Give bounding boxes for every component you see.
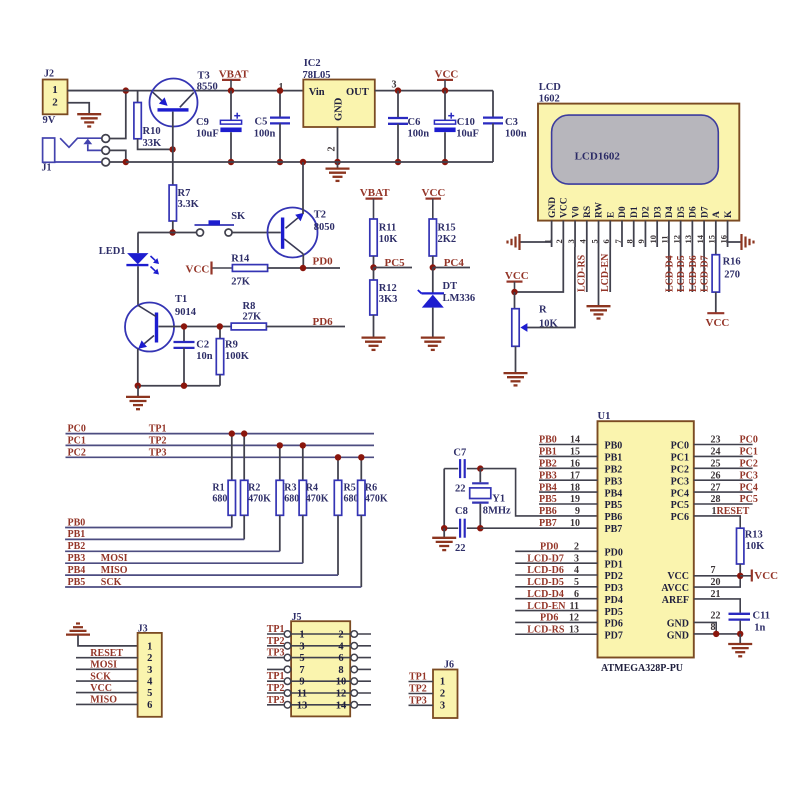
- svg-text:PB6: PB6: [539, 506, 557, 517]
- svg-text:22: 22: [455, 543, 466, 554]
- svg-text:D3: D3: [653, 206, 663, 218]
- junction R10/T3 base: [169, 146, 175, 152]
- svg-text:RS: RS: [583, 206, 593, 218]
- IC2 pin2 wire: [337, 127, 339, 162]
- svg-text:11: 11: [570, 601, 579, 612]
- wire PB0 row: [65, 527, 232, 529]
- svg-text:RESET: RESET: [90, 648, 123, 659]
- power VCC R14: [186, 262, 233, 276]
- svg-text:SCK: SCK: [90, 671, 111, 682]
- svg-text:8: 8: [338, 665, 343, 676]
- svg-text:VCC: VCC: [560, 197, 570, 218]
- svg-text:K: K: [724, 210, 734, 218]
- wire LCD pin5 to ground: [598, 247, 600, 306]
- svg-text:R11: R11: [379, 223, 397, 234]
- svg-text:VCC: VCC: [422, 187, 446, 199]
- svg-text:680: 680: [344, 494, 359, 505]
- LED LED1: [99, 233, 159, 306]
- LCD pin 13 wire: [691, 221, 693, 247]
- svg-text:PD0: PD0: [313, 255, 334, 267]
- svg-text:10uF: 10uF: [196, 129, 219, 140]
- LCD pin 11 wire: [668, 221, 670, 247]
- svg-text:16: 16: [718, 235, 728, 244]
- wire T2 emitter: [302, 254, 304, 268]
- ground crystal: [432, 528, 456, 550]
- svg-text:PB0: PB0: [539, 435, 557, 446]
- svg-text:LCD-EN: LCD-EN: [600, 253, 611, 292]
- svg-text:10n: 10n: [196, 351, 213, 362]
- svg-text:PC6: PC6: [671, 512, 689, 523]
- svg-text:GND: GND: [667, 619, 689, 630]
- svg-text:17: 17: [570, 470, 580, 481]
- svg-text:7: 7: [299, 665, 304, 676]
- junction C9 bus: [228, 159, 234, 165]
- svg-text:PB2: PB2: [605, 465, 623, 476]
- J5 pin circle 5: [284, 654, 291, 661]
- svg-text:PB7: PB7: [539, 518, 557, 529]
- svg-text:C8: C8: [455, 506, 468, 517]
- resistor R16 270: [712, 247, 741, 313]
- wire U1 PD0 stub: [515, 550, 597, 552]
- wire J1 sleeve to bus: [110, 161, 126, 163]
- svg-text:D2: D2: [642, 206, 652, 218]
- svg-text:R: R: [539, 305, 547, 316]
- svg-text:PC5: PC5: [385, 257, 406, 269]
- power VCC pot: [505, 270, 529, 292]
- junction 9V node: [123, 87, 129, 93]
- wire LCD pin14 stub: [703, 247, 705, 292]
- connector J5: [291, 612, 350, 716]
- svg-text:C6: C6: [408, 117, 421, 128]
- J5 pin circle 2: [351, 631, 358, 638]
- svg-text:14: 14: [336, 700, 347, 711]
- wire 9V rail: [68, 90, 304, 92]
- wire IC2 out rail: [375, 90, 493, 92]
- svg-text:680: 680: [284, 494, 299, 505]
- resistor R14 27K: [231, 254, 267, 288]
- wire LCD pin12 stub: [680, 247, 682, 292]
- svg-text:PC5: PC5: [671, 500, 689, 511]
- svg-text:LCD-D6: LCD-D6: [527, 565, 564, 576]
- wire U1 PD1 stub: [515, 562, 597, 564]
- junction R7/SK/LED: [169, 229, 175, 235]
- capacitor C2 10n: [174, 327, 213, 386]
- svg-text:TP3: TP3: [409, 695, 427, 706]
- junction R3 top: [277, 442, 283, 448]
- svg-text:LCD-D4: LCD-D4: [664, 255, 675, 292]
- svg-text:12: 12: [671, 235, 681, 244]
- junction C6 bus: [395, 159, 401, 165]
- svg-text:PC3: PC3: [740, 470, 758, 481]
- svg-text:4: 4: [574, 565, 579, 576]
- capacitor C9 10uF: [196, 91, 242, 162]
- wire T3 base down: [172, 112, 174, 185]
- J5 pin circle 3: [284, 643, 291, 650]
- svg-text:PB1: PB1: [605, 453, 623, 464]
- svg-text:GND: GND: [548, 197, 558, 218]
- svg-text:E: E: [606, 212, 616, 218]
- svg-text:PB1: PB1: [68, 529, 86, 540]
- svg-text:PD0: PD0: [540, 542, 558, 553]
- wire J3 pin2: [76, 657, 138, 659]
- junction bus left: [123, 159, 129, 165]
- svg-text:SCK: SCK: [101, 577, 122, 588]
- svg-text:D0: D0: [618, 206, 628, 218]
- svg-text:D7: D7: [700, 206, 710, 218]
- svg-text:27K: 27K: [231, 276, 251, 287]
- svg-text:LCD-EN: LCD-EN: [527, 601, 566, 612]
- svg-text:3: 3: [440, 701, 445, 712]
- wire line PC0/TP1: [66, 433, 375, 435]
- connector J2: [43, 69, 68, 127]
- wire J5 pin8 stub: [357, 668, 371, 670]
- wire U1 PC4 stub: [694, 491, 753, 493]
- svg-text:11: 11: [297, 689, 307, 700]
- wire J6 pin2: [409, 693, 434, 695]
- LCD pin 5 wire: [598, 221, 600, 247]
- ground LCD pin5: [587, 305, 611, 307]
- MCU U1 ATMEGA328P-PU: [598, 411, 694, 674]
- wire XTAL1 to PB6: [480, 469, 597, 516]
- wire C7 left down: [443, 469, 445, 529]
- svg-text:9: 9: [636, 239, 646, 243]
- J5 pin circle 4: [351, 643, 358, 650]
- transistor T2 8050: [268, 208, 335, 258]
- svg-text:LCD-D7: LCD-D7: [527, 553, 564, 564]
- svg-text:PB3: PB3: [68, 553, 86, 564]
- svg-text:10K: 10K: [539, 318, 559, 329]
- svg-text:R12: R12: [379, 283, 397, 294]
- wire J5 row 3: [267, 657, 371, 659]
- svg-text:3: 3: [147, 665, 152, 676]
- svg-text:DT: DT: [443, 281, 458, 292]
- svg-text:R13: R13: [745, 530, 763, 541]
- wire R7 to LED: [138, 232, 173, 234]
- junction T2 collector bus: [300, 159, 306, 165]
- switch SK: [195, 211, 247, 236]
- power VBAT: [219, 68, 249, 90]
- svg-text:R6: R6: [365, 483, 377, 494]
- svg-text:D1: D1: [630, 206, 640, 218]
- svg-text:LCD1602: LCD1602: [575, 151, 621, 163]
- svg-text:LED1: LED1: [99, 246, 126, 257]
- wire U1 PB2 stub: [539, 467, 598, 469]
- svg-text:VCC: VCC: [505, 270, 529, 282]
- junction C2 bottom: [181, 383, 187, 389]
- svg-text:2: 2: [554, 239, 564, 243]
- wire LCD pin16 to ground: [728, 241, 742, 243]
- transistor T1 9014: [125, 294, 197, 352]
- LCD pin 2 wire: [562, 221, 564, 247]
- wire ground bus: [126, 161, 493, 163]
- svg-text:GND: GND: [334, 97, 345, 121]
- junction U1 gnd1: [713, 631, 719, 637]
- wire T1 base row: [158, 326, 231, 328]
- svg-text:9: 9: [299, 677, 304, 688]
- svg-text:T3: T3: [198, 71, 210, 82]
- wire R8 to PD6: [266, 326, 345, 328]
- svg-text:22: 22: [711, 611, 721, 622]
- junction VCC pot node: [511, 289, 517, 295]
- wire LCD pin11 stub: [668, 247, 670, 292]
- resistor R2 470K: [241, 434, 272, 540]
- wire U1 PD3 stub: [515, 586, 597, 588]
- svg-text:5: 5: [589, 239, 599, 243]
- svg-text:100n: 100n: [254, 129, 276, 140]
- svg-text:C3: C3: [505, 117, 518, 128]
- wire PB5 row: [65, 586, 361, 588]
- J5 pin circle 11: [284, 690, 291, 697]
- svg-text:5: 5: [299, 653, 304, 664]
- capacitor C7 22p: [444, 448, 480, 495]
- junction C8 left: [441, 525, 447, 531]
- LCD pin 8 wire: [633, 221, 635, 247]
- svg-text:2: 2: [338, 630, 343, 641]
- svg-text:4: 4: [338, 641, 344, 652]
- svg-text:5: 5: [574, 577, 579, 588]
- wire U1 PD2 stub: [515, 574, 597, 576]
- svg-text:PC2: PC2: [671, 465, 689, 476]
- junction R4 top: [300, 442, 306, 448]
- svg-text:J1: J1: [42, 163, 52, 174]
- LCD pin 16 wire: [727, 221, 729, 247]
- svg-text:PD7: PD7: [605, 630, 623, 641]
- ground J2: [77, 114, 101, 126]
- svg-text:270: 270: [724, 270, 740, 281]
- wire U1 GND22 pin: [694, 622, 716, 634]
- svg-text:10: 10: [648, 235, 658, 244]
- crystal Y1 8MHz: [470, 469, 511, 529]
- svg-text:16: 16: [570, 459, 580, 470]
- svg-text:A: A: [712, 211, 722, 218]
- svg-text:C11: C11: [753, 610, 771, 621]
- svg-text:R14: R14: [231, 254, 250, 265]
- wire U1 PB3 stub: [539, 479, 598, 481]
- wire U1 PD6 stub: [515, 621, 597, 623]
- svg-text:J2: J2: [44, 69, 54, 80]
- ground J3: [66, 624, 138, 646]
- wire J5 row 7: [267, 704, 371, 706]
- svg-text:PC1: PC1: [740, 447, 758, 458]
- power VCC R15: [422, 187, 446, 219]
- wire line PC2/TP3: [66, 456, 375, 458]
- svg-text:V0: V0: [571, 206, 581, 218]
- svg-text:3K3: 3K3: [379, 294, 398, 305]
- svg-text:R10: R10: [143, 126, 161, 137]
- svg-text:1: 1: [147, 641, 152, 652]
- svg-text:10: 10: [570, 518, 580, 529]
- junction U1 gnd2: [737, 631, 743, 637]
- wire U1 PC5 stub: [694, 503, 753, 505]
- svg-text:10K: 10K: [746, 541, 766, 552]
- ground LCD pin1: [518, 234, 520, 250]
- svg-text:3: 3: [566, 239, 576, 243]
- capacitor C10 10uF: [434, 91, 479, 162]
- svg-text:LM336: LM336: [443, 293, 476, 304]
- wire LCD pin1 to ground: [520, 241, 552, 243]
- wire U1 PD4 stub: [515, 598, 597, 600]
- svg-text:13: 13: [297, 700, 308, 711]
- svg-text:TP2: TP2: [267, 683, 285, 694]
- svg-text:470K: 470K: [248, 494, 271, 505]
- LCD pin 6 wire: [609, 221, 611, 247]
- junction U1 VCC node: [737, 573, 743, 579]
- svg-text:OUT: OUT: [346, 87, 369, 98]
- svg-text:SK: SK: [231, 211, 246, 222]
- svg-text:PB7: PB7: [605, 524, 623, 535]
- svg-text:1n: 1n: [754, 622, 765, 633]
- svg-text:14: 14: [695, 234, 705, 243]
- wire U1 PD5 stub: [515, 610, 597, 612]
- svg-text:R5: R5: [344, 483, 356, 494]
- svg-text:C5: C5: [255, 117, 268, 128]
- svg-text:PB4: PB4: [68, 565, 86, 576]
- potentiometer R 10K: [512, 292, 559, 373]
- LCD pin 4 wire: [586, 221, 588, 247]
- junction R2 top: [241, 430, 247, 436]
- svg-text:23: 23: [711, 435, 721, 446]
- svg-text:12: 12: [569, 613, 579, 624]
- svg-text:C7: C7: [453, 448, 466, 459]
- svg-text:C2: C2: [196, 340, 209, 351]
- svg-text:13: 13: [683, 235, 693, 244]
- J1 pin circle sleeve: [102, 158, 110, 166]
- svg-text:3: 3: [574, 553, 579, 564]
- power VBAT2: [360, 187, 390, 219]
- svg-text:2: 2: [440, 689, 445, 700]
- ground DT: [421, 336, 445, 338]
- LCD1602 module: [538, 82, 739, 221]
- svg-text:10K: 10K: [379, 234, 399, 245]
- J5 pin circle 13: [284, 702, 291, 709]
- wire J3 pin6: [76, 703, 138, 705]
- LCD pin 10 wire: [656, 221, 658, 247]
- svg-text:TP1: TP1: [267, 624, 285, 635]
- svg-text:33K: 33K: [143, 138, 163, 149]
- wire U1 AVCC pin: [694, 576, 740, 587]
- J5 pin circle 8: [351, 666, 358, 673]
- wire PB1 row: [65, 538, 244, 540]
- LCD pin 9 wire: [644, 221, 646, 247]
- svg-text:TP3: TP3: [267, 648, 285, 659]
- svg-text:2: 2: [147, 653, 152, 664]
- wire U1 PD7 stub: [515, 633, 597, 635]
- svg-text:RW: RW: [595, 201, 605, 218]
- resistor R13 10K: [737, 528, 766, 576]
- LCD pin 1 wire: [551, 221, 553, 247]
- J5 pin circle 14: [351, 702, 358, 709]
- svg-text:D4: D4: [665, 206, 675, 218]
- svg-text:VCC: VCC: [435, 68, 459, 80]
- svg-text:PD1: PD1: [605, 559, 623, 570]
- wire LCD pin6 stub: [609, 247, 611, 292]
- wire J3 pin5: [76, 692, 138, 694]
- svg-text:8MHz: 8MHz: [483, 506, 511, 517]
- junction R1 top: [229, 430, 235, 436]
- resistor R6 470K: [358, 457, 388, 587]
- J5 pin circle 12: [351, 690, 358, 697]
- svg-text:MISO: MISO: [101, 565, 128, 576]
- svg-text:IC2: IC2: [304, 58, 321, 69]
- svg-text:LCD-RS: LCD-RS: [577, 254, 588, 292]
- svg-text:TP2: TP2: [409, 684, 427, 695]
- wire LCD pin13 stub: [691, 247, 693, 292]
- svg-text:PC5: PC5: [740, 494, 758, 505]
- svg-text:VCC: VCC: [90, 683, 112, 694]
- wire J5 row 2: [267, 645, 371, 647]
- resistor R11 10K: [370, 219, 398, 268]
- wire U1 PC2 stub: [694, 467, 753, 469]
- svg-text:MOSI: MOSI: [90, 660, 117, 671]
- junction PC5 node: [370, 264, 376, 270]
- J1 pin circle tip: [102, 135, 110, 143]
- svg-text:LCD: LCD: [539, 82, 562, 93]
- svg-text:2: 2: [574, 542, 579, 553]
- svg-text:LCD-D7: LCD-D7: [699, 255, 710, 292]
- svg-text:R1: R1: [212, 483, 224, 494]
- wire emitter bus: [138, 385, 220, 387]
- svg-text:PB4: PB4: [605, 488, 623, 499]
- junction C6 top: [395, 87, 401, 93]
- svg-text:R4: R4: [306, 483, 318, 494]
- wire U1 PC1 stub: [694, 455, 753, 457]
- junction PC4 node: [430, 264, 436, 270]
- wire U1 PB0 stub: [539, 444, 598, 446]
- svg-text:TP3: TP3: [267, 695, 285, 706]
- resistor R7: [169, 185, 200, 233]
- wire U1 AREF pin: [694, 599, 740, 613]
- svg-text:PD3: PD3: [605, 583, 623, 594]
- svg-text:100K: 100K: [225, 351, 250, 362]
- wire J1 tip to 9V node: [110, 91, 126, 139]
- junction XTAL2: [477, 525, 483, 531]
- svg-text:9V: 9V: [43, 115, 56, 126]
- svg-text:1: 1: [440, 677, 445, 688]
- svg-text:18: 18: [570, 482, 580, 493]
- ground T1: [126, 386, 150, 410]
- svg-text:R9: R9: [225, 340, 238, 351]
- svg-text:D6: D6: [689, 206, 699, 218]
- wire J6 pin3: [409, 704, 434, 706]
- junction C5 top: [277, 87, 283, 93]
- wire U1 reset: [694, 516, 740, 528]
- junction XTAL1: [477, 465, 483, 471]
- J5 pin circle 6: [351, 654, 358, 661]
- svg-text:6: 6: [601, 239, 611, 243]
- svg-text:R15: R15: [438, 223, 456, 234]
- junction VBAT node: [228, 87, 234, 93]
- J5 pin circle 1: [284, 631, 291, 638]
- svg-text:C10: C10: [457, 117, 475, 128]
- resistor R8 27K: [231, 301, 266, 330]
- wire R7 to SK: [173, 232, 197, 234]
- svg-text:9: 9: [575, 506, 580, 517]
- wire J5 row 5: [267, 680, 371, 682]
- resistor R4 470K: [299, 445, 329, 563]
- wire PB4 row: [65, 574, 338, 576]
- junction C2 top: [181, 323, 187, 329]
- svg-text:27K: 27K: [243, 312, 263, 323]
- svg-text:ATMEGA328P-PU: ATMEGA328P-PU: [601, 663, 683, 674]
- wire U1 PB5 stub: [539, 503, 598, 505]
- svg-text:LCD-D5: LCD-D5: [676, 255, 687, 292]
- svg-text:PD6: PD6: [605, 619, 623, 630]
- resistor R1 680: [212, 434, 235, 528]
- svg-text:PB6: PB6: [605, 512, 623, 523]
- connector J6: [433, 659, 458, 718]
- svg-text:PB0: PB0: [68, 517, 86, 528]
- junction C5 bus: [277, 159, 283, 165]
